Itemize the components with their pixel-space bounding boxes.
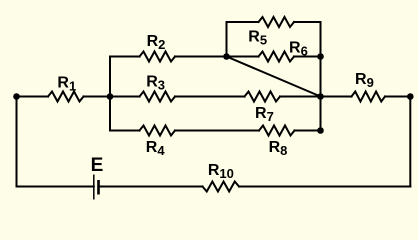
node left bbox=[13, 93, 20, 100]
resistor R7 bbox=[245, 92, 281, 102]
svg-text:E: E bbox=[91, 155, 104, 176]
node junction bbox=[107, 93, 114, 100]
wire R10 to battery bbox=[98, 186, 202, 188]
resistor R6 bbox=[259, 52, 295, 62]
wire junction vertical bus bbox=[109, 57, 111, 131]
wire R5 loop left and top bbox=[227, 22, 259, 57]
node C bbox=[317, 127, 324, 134]
wire R8 to node C bbox=[295, 130, 321, 132]
resistor R2 bbox=[140, 52, 176, 62]
node B bbox=[317, 93, 324, 100]
resistor R5 bbox=[259, 17, 295, 27]
wire R5 right corner down bbox=[294, 22, 321, 57]
wire R4 left lead bbox=[110, 130, 140, 132]
wire R3 to R7 bbox=[175, 96, 245, 98]
resistor R8 bbox=[259, 126, 295, 136]
resistor R1 bbox=[48, 92, 84, 102]
battery E positive plate bbox=[93, 175, 95, 200]
wire R9 left lead bbox=[321, 96, 352, 98]
wire R7 to node B bbox=[280, 96, 321, 98]
wire R3 left lead bbox=[110, 96, 140, 98]
resistor R9 bbox=[352, 92, 386, 102]
wire R9 to right node bbox=[385, 96, 410, 98]
wire R1 to junction bbox=[84, 96, 111, 98]
wire R2 left lead bbox=[110, 56, 140, 58]
resistor R4 bbox=[140, 126, 176, 136]
node right bbox=[407, 93, 414, 100]
resistor R10 bbox=[202, 182, 239, 192]
wire R6 left lead bbox=[227, 56, 259, 58]
wire battery to left bottom corner and up bbox=[17, 97, 94, 187]
wire R2 to node A bbox=[175, 56, 227, 58]
wire right side down bbox=[409, 97, 411, 187]
wire R4 to R8 bbox=[175, 130, 259, 132]
node R6 right bbox=[317, 53, 324, 60]
wire R6 right lead bbox=[294, 56, 321, 58]
wire diagonal node A to node B bbox=[227, 57, 321, 97]
node A bbox=[223, 53, 230, 60]
battery E negative plate bbox=[97, 180, 100, 195]
wire left node to R1 bbox=[17, 96, 49, 98]
wire bottom right segment bbox=[239, 186, 410, 188]
resistor R3 bbox=[140, 92, 176, 102]
wire right vertical bus bbox=[320, 57, 322, 131]
